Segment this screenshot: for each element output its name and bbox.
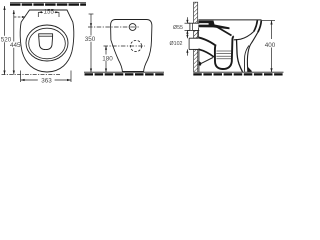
shell lower diagonal — [198, 58, 213, 65]
trap lower wall — [198, 49, 214, 57]
dim 400 — [262, 21, 276, 73]
front wall inner line — [244, 46, 248, 72]
dim Ø102 — [170, 32, 189, 56]
pan outline plan — [20, 10, 74, 72]
water lines — [216, 51, 231, 59]
pan back against wall — [198, 49, 200, 71]
inlet centerline — [88, 26, 140, 28]
rim front curl outer — [258, 20, 261, 32]
outlet pipe stub — [189, 38, 198, 49]
floor band right — [193, 72, 283, 74]
outlet centerline — [104, 45, 146, 47]
bowl rim inner — [29, 28, 66, 59]
dim 363 — [21, 71, 71, 85]
inner bowl line from rim — [234, 32, 254, 40]
wc top surface — [198, 19, 261, 21]
inlet pipe stub — [188, 23, 200, 30]
sump ring — [215, 36, 234, 69]
front foot flare — [248, 67, 252, 72]
floor band middle — [84, 72, 164, 74]
wall band — [10, 3, 86, 5]
bowl back line to sump — [215, 26, 232, 36]
dim 445 — [10, 10, 21, 75]
svg-text:180: 180 — [102, 55, 113, 62]
svg-text:155: 155 — [43, 9, 54, 16]
wall section — [194, 2, 198, 72]
svg-text:Ø55: Ø55 — [173, 25, 183, 31]
wall corner blob — [198, 61, 201, 66]
svg-text:363: 363 — [41, 78, 52, 85]
leader to side — [14, 16, 26, 18]
svg-text:Ø102: Ø102 — [170, 41, 183, 47]
dim 350 — [85, 14, 96, 72]
dim 520 — [1, 6, 12, 75]
trap upper wall — [198, 37, 215, 45]
dim 180 — [102, 46, 113, 72]
svg-text:445: 445 — [10, 42, 21, 49]
front extension line — [2, 74, 61, 76]
wc rear silhouette — [111, 20, 152, 72]
rim front curl inner — [254, 20, 258, 31]
dim Ø55 — [173, 17, 190, 36]
pan back face above outlet — [198, 28, 200, 39]
dim 155 — [38, 9, 59, 17]
front profile outer — [247, 32, 258, 72]
outlet dashed circle — [130, 40, 141, 51]
flush channel block — [198, 21, 229, 30]
trapway outer shell — [237, 39, 243, 72]
bowl rim outer — [26, 25, 68, 61]
inlet circle — [129, 24, 136, 31]
sump cup — [39, 34, 53, 50]
svg-text:350: 350 — [85, 36, 96, 43]
svg-text:400: 400 — [265, 42, 276, 49]
